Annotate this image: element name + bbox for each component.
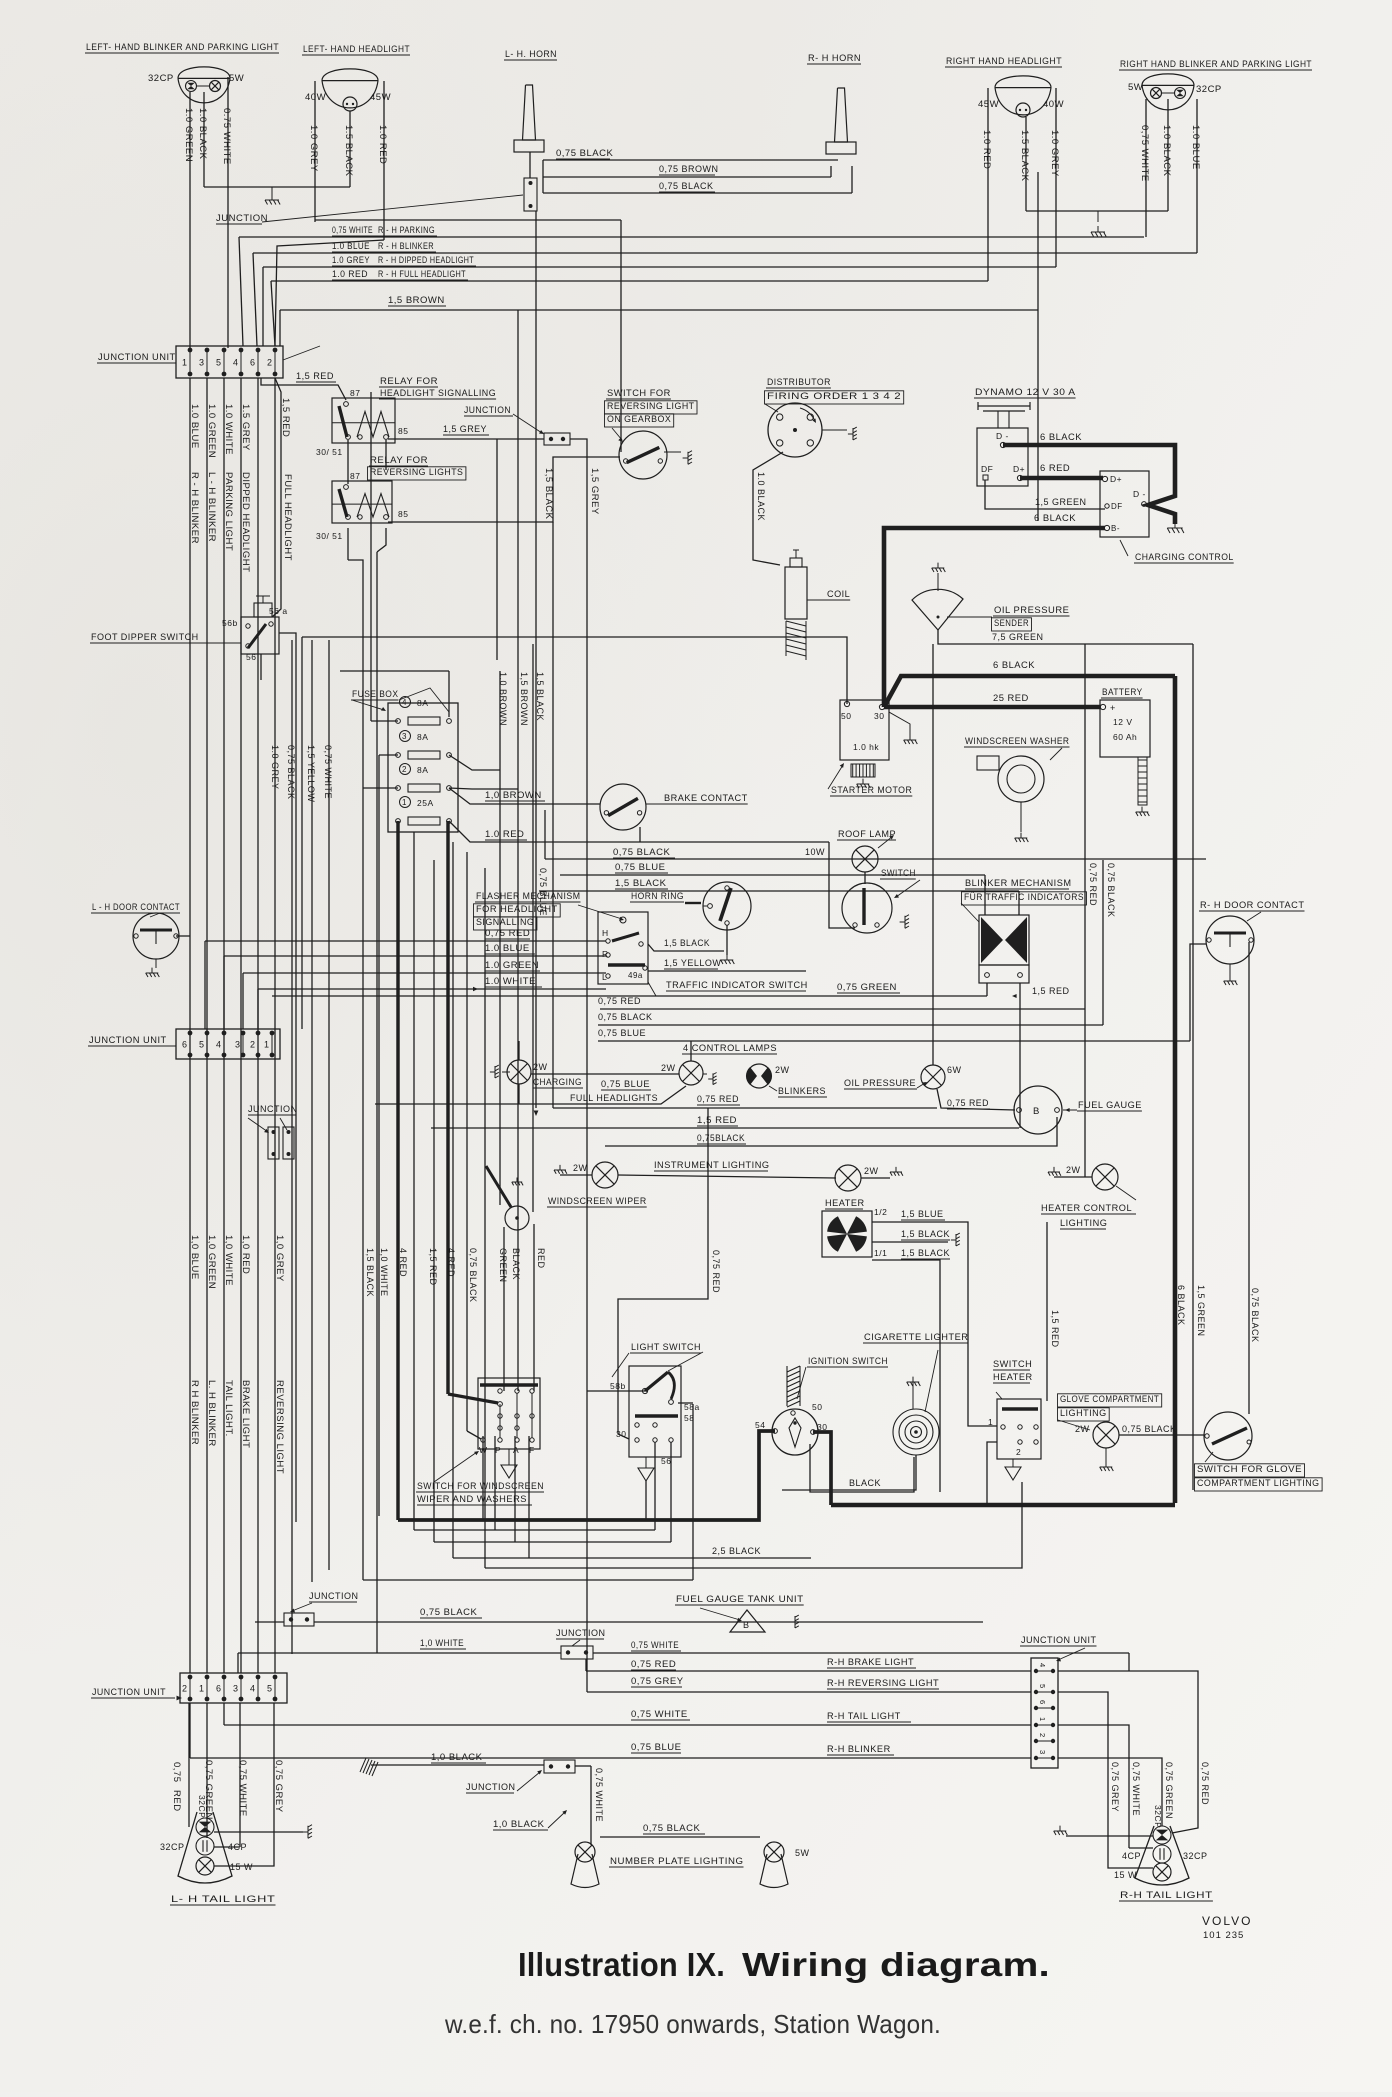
svg-text:32CP: 32CP [197,1795,207,1818]
svg-text:FLASHER MECHANISM: FLASHER MECHANISM [476,891,580,901]
svg-text:6 BLACK: 6 BLACK [1040,431,1082,442]
svg-text:1,0 WHITE: 1,0 WHITE [379,1248,389,1297]
svg-text:50: 50 [841,711,851,721]
svg-text:2W: 2W [533,1062,548,1072]
svg-text:0,75 BLUE: 0,75 BLUE [601,1079,650,1089]
svg-text:4: 4 [1038,1663,1047,1668]
svg-text:1.0 RED: 1.0 RED [377,125,388,164]
svg-text:FUSE BOX: FUSE BOX [352,689,398,699]
svg-text:NUMBER PLATE LIGHTING: NUMBER PLATE LIGHTING [610,1856,744,1866]
svg-text:1,0 BROWN: 1,0 BROWN [485,790,542,801]
svg-text:2W: 2W [1066,1165,1081,1175]
svg-text:1.0 BLACK: 1.0 BLACK [756,472,766,521]
svg-text:SWITCH: SWITCH [993,1359,1032,1369]
svg-text:REVERSING LIGHT: REVERSING LIGHT [274,1380,285,1474]
svg-text:6: 6 [216,1684,222,1694]
svg-text:STARTER MOTOR: STARTER MOTOR [831,785,912,795]
svg-text:1.0 RED: 1.0 RED [332,269,368,280]
svg-text:1,0 WHITE: 1,0 WHITE [420,1638,464,1649]
svg-text:0,75 BLACK: 0,75 BLACK [286,745,296,800]
svg-text:60 Ah: 60 Ah [1113,732,1137,742]
svg-text:Illustration IX.: Illustration IX. [518,1946,725,1983]
svg-text:HEATER: HEATER [825,1198,865,1208]
svg-text:0,75 GREEN: 0,75 GREEN [1164,1762,1174,1819]
svg-text:w.e.f. ch. no. 17950 onwards,: w.e.f. ch. no. 17950 onwards, Station Wa… [444,2009,941,2039]
svg-text:D+: D+ [1110,474,1122,484]
svg-text:RED: RED [536,1248,546,1269]
svg-text:1,5 GREY: 1,5 GREY [443,424,487,435]
svg-text:1,5 RED: 1,5 RED [428,1248,438,1286]
svg-text:87: 87 [350,471,360,481]
svg-text:OIL PRESSURE: OIL PRESSURE [994,605,1069,615]
svg-text:1,5 BLACK: 1,5 BLACK [664,938,710,948]
svg-text:FUEL GAUGE: FUEL GAUGE [1078,1100,1142,1110]
svg-text:1/1: 1/1 [874,1248,887,1258]
svg-text:LEFT- HAND HEADLIGHT: LEFT- HAND HEADLIGHT [303,44,410,55]
svg-text:32CP: 32CP [1196,84,1222,95]
svg-text:3: 3 [199,358,205,368]
svg-text:DIPPED HEADLIGHT: DIPPED HEADLIGHT [240,472,251,572]
svg-text:5: 5 [216,358,222,368]
svg-text:1,0 RED: 1,0 RED [240,1235,251,1274]
svg-text:1.0 GREY: 1.0 GREY [332,255,370,266]
svg-text:0,75 WHITE: 0,75 WHITE [594,1768,604,1822]
svg-text:CHARGING CONTROL: CHARGING CONTROL [1135,552,1234,562]
svg-text:Wiring diagram.: Wiring diagram. [742,1946,1050,1983]
svg-text:REVERSING LIGHTS: REVERSING LIGHTS [370,467,463,477]
svg-text:0,75 RED: 0,75 RED [711,1250,721,1293]
svg-text:1,0 BLACK: 1,0 BLACK [493,1819,545,1830]
svg-text:R-H TAIL LIGHT: R-H TAIL LIGHT [827,1711,901,1721]
svg-text:R- H HORN: R- H HORN [808,53,861,64]
svg-text:32CP: 32CP [160,1842,185,1852]
svg-text:R H BLINKER: R H BLINKER [189,1380,200,1445]
svg-text:H: H [602,928,609,938]
svg-text:GLOVE COMPARTMENT: GLOVE COMPARTMENT [1060,1394,1159,1404]
svg-text:5W: 5W [1128,82,1143,93]
svg-text:1/2: 1/2 [874,1207,887,1217]
svg-text:32CP: 32CP [1153,1805,1163,1828]
svg-text:JUNCTION UNIT: JUNCTION UNIT [92,1687,166,1697]
svg-text:1,5 BLACK: 1,5 BLACK [901,1248,950,1258]
svg-text:30: 30 [616,1429,626,1439]
svg-text:1,5 RED: 1,5 RED [1050,1310,1060,1348]
svg-text:B: B [1033,1106,1040,1117]
svg-text:PARKING LIGHT: PARKING LIGHT [223,472,234,551]
svg-text:0,75 WHITE: 0,75 WHITE [237,1760,248,1817]
svg-text:D -: D - [996,431,1009,441]
svg-text:REVERSING LIGHT: REVERSING LIGHT [607,401,695,411]
svg-text:RIGHT HAND BLINKER AND PARKING: RIGHT HAND BLINKER AND PARKING LIGHT [1120,59,1312,70]
svg-text:1,5 BLACK: 1,5 BLACK [615,878,667,889]
svg-text:SIGNALLING: SIGNALLING [476,917,534,927]
svg-text:4 CONTROL LAMPS: 4 CONTROL LAMPS [683,1043,777,1053]
svg-text:1.0 BLACK: 1.0 BLACK [1161,125,1172,177]
svg-text:1,0 BLUE: 1,0 BLUE [189,1235,200,1280]
svg-text:DISTRIBUTOR: DISTRIBUTOR [767,377,831,387]
svg-text:6 RED: 6 RED [1040,462,1070,473]
svg-text:1,5 BROWN: 1,5 BROWN [388,295,445,306]
svg-text:1,5 RED: 1,5 RED [697,1115,737,1125]
svg-text:L - H DOOR CONTACT: L - H DOOR CONTACT [92,902,180,912]
svg-text:12 V: 12 V [1113,717,1133,727]
svg-text:DYNAMO 12 V 30 A: DYNAMO 12 V 30 A [975,386,1076,397]
svg-text:101 235: 101 235 [1203,1930,1244,1941]
svg-text:3: 3 [233,1684,239,1694]
svg-text:1,5 RED: 1,5 RED [296,371,334,382]
svg-text:LEFT- HAND BLINKER AND PARKING: LEFT- HAND BLINKER AND PARKING LIGHT [86,42,279,53]
svg-text:HEADLIGHT SIGNALLING: HEADLIGHT SIGNALLING [380,388,496,398]
svg-text:1,5 YELLOW: 1,5 YELLOW [306,745,316,802]
svg-text:COIL: COIL [827,589,850,599]
svg-text:BLINKERS: BLINKERS [778,1086,826,1096]
svg-text:1,5 GREY: 1,5 GREY [589,468,600,515]
svg-text:INSTRUMENT LIGHTING: INSTRUMENT LIGHTING [654,1160,770,1170]
svg-text:56 a: 56 a [269,606,288,616]
svg-text:5W: 5W [795,1848,810,1858]
svg-text:IGNITION SWITCH: IGNITION SWITCH [808,1356,888,1366]
svg-text:3: 3 [1038,1750,1047,1755]
svg-text:GREEN: GREEN [498,1248,508,1283]
svg-text:SWITCH FOR: SWITCH FOR [607,388,671,398]
svg-text:8A: 8A [417,765,428,775]
svg-text:1,5 YELLOW: 1,5 YELLOW [664,958,721,968]
svg-text:SWITCH FOR WINDSCREEN: SWITCH FOR WINDSCREEN [417,1481,544,1491]
svg-text:5W: 5W [229,73,244,84]
svg-text:56: 56 [661,1456,671,1466]
svg-text:2: 2 [1038,1733,1047,1738]
svg-text:6 BLACK: 6 BLACK [1176,1285,1186,1326]
svg-text:10W: 10W [805,847,825,857]
svg-text:6: 6 [250,358,256,368]
svg-text:R - H PARKING: R - H PARKING [378,225,435,236]
svg-text:ON GEARBOX: ON GEARBOX [607,414,671,424]
svg-text:1,5 GREEN: 1,5 GREEN [1035,497,1087,507]
svg-text:0,75 WHITE: 0,75 WHITE [1139,125,1150,182]
svg-text:0,75BLACK: 0,75BLACK [697,1133,745,1143]
svg-text:5: 5 [267,1684,273,1694]
svg-text:1.0 RED: 1.0 RED [485,829,524,840]
svg-text:1,0 BLACK: 1,0 BLACK [431,1752,483,1763]
svg-text:RELAY FOR: RELAY FOR [370,455,428,465]
svg-text:85: 85 [398,426,408,436]
svg-text:1: 1 [1038,1717,1047,1722]
svg-text:R-H BRAKE LIGHT: R-H BRAKE LIGHT [827,1657,914,1667]
svg-text:BATTERY: BATTERY [1102,687,1143,697]
svg-text:1.0 GREEN: 1.0 GREEN [183,108,194,162]
svg-text:0,75 RED: 0,75 RED [697,1094,739,1104]
svg-text:RELAY FOR: RELAY FOR [380,376,438,386]
svg-text:4: 4 [250,1684,256,1694]
svg-text:SWITCH FOR GLOVE: SWITCH FOR GLOVE [1197,1464,1302,1474]
svg-text:L - H BLINKER: L - H BLINKER [206,472,217,542]
svg-text:8A: 8A [417,698,428,708]
svg-text:R-H TAIL LIGHT: R-H TAIL LIGHT [1120,1890,1213,1900]
svg-text:CIGARETTE LIGHTER: CIGARETTE LIGHTER [864,1332,968,1342]
svg-text:WINDSCREEN WIPER: WINDSCREEN WIPER [548,1196,647,1206]
svg-text:JUNCTION: JUNCTION [556,1628,606,1638]
svg-text:0,75: 0,75 [171,1762,182,1783]
svg-text:0,75 BLACK: 0,75 BLACK [468,1248,478,1303]
svg-text:2W: 2W [573,1163,588,1173]
svg-text:0,75 BLACK: 0,75 BLACK [659,181,714,191]
svg-text:1: 1 [988,1417,993,1427]
svg-text:1.0 GREEN: 1.0 GREEN [206,404,217,458]
svg-text:1.0 GREEN: 1.0 GREEN [485,960,539,971]
svg-text:6 BLACK: 6 BLACK [993,659,1035,670]
svg-text:JUNCTION: JUNCTION [309,1591,359,1601]
svg-text:1: 1 [199,1684,205,1694]
svg-text:1.0 GREY: 1.0 GREY [308,125,319,172]
svg-text:DF: DF [981,464,993,474]
svg-text:2: 2 [250,1040,256,1050]
svg-text:0,75 RED: 0,75 RED [1088,863,1098,906]
svg-text:4 RED: 4 RED [398,1248,408,1277]
svg-text:54: 54 [755,1420,765,1430]
svg-text:8A: 8A [417,732,428,742]
svg-text:0,75 BLACK: 0,75 BLACK [598,1012,653,1022]
svg-text:D+: D+ [1013,464,1025,474]
svg-text:+: + [1110,703,1116,713]
svg-text:BRAKE LIGHT: BRAKE LIGHT [240,1380,251,1448]
svg-text:TAIL LIGHT.: TAIL LIGHT. [223,1380,234,1437]
svg-text:45W: 45W [370,92,391,103]
svg-text:0,75 BLACK: 0,75 BLACK [1250,1288,1260,1343]
svg-text:BLACK: BLACK [849,1478,881,1488]
svg-text:3: 3 [402,732,407,741]
svg-text:1: 1 [264,1040,270,1050]
svg-text:0,75 BLACK: 0,75 BLACK [643,1823,700,1834]
svg-text:0,75 RED: 0,75 RED [1200,1762,1210,1805]
svg-text:15 W: 15 W [1114,1870,1137,1880]
svg-text:0,75 RED: 0,75 RED [598,996,641,1006]
svg-text:2,5 BLACK: 2,5 BLACK [712,1546,761,1556]
svg-text:0,75 BLACK: 0,75 BLACK [1122,1424,1177,1434]
svg-text:56b: 56b [222,618,238,628]
svg-text:SENDER: SENDER [994,618,1029,628]
svg-text:1.0 WHITE: 1.0 WHITE [485,976,536,987]
svg-text:4: 4 [402,698,407,707]
svg-text:0,75 WHITE: 0,75 WHITE [1131,1762,1141,1816]
svg-text:3: 3 [235,1040,241,1050]
svg-text:1,0 GREY: 1,0 GREY [274,1235,285,1282]
svg-text:1.5 BLACK: 1.5 BLACK [1019,130,1030,182]
svg-text:6 BLACK: 6 BLACK [1034,512,1076,523]
svg-text:0,75 BROWN: 0,75 BROWN [659,164,719,174]
svg-text:1.0 WHITE: 1.0 WHITE [223,404,234,455]
svg-text:1,5 BLACK: 1,5 BLACK [365,1248,375,1297]
svg-text:15 W: 15 W [230,1862,253,1872]
svg-text:HORN RING: HORN RING [631,891,684,901]
svg-text:0,75 BLACK: 0,75 BLACK [613,847,670,858]
svg-text:1.0 BLUE: 1.0 BLUE [332,241,370,252]
svg-text:0,75 WHITE: 0,75 WHITE [332,225,373,236]
svg-text:SWITCH: SWITCH [881,868,916,878]
svg-text:JUNCTION: JUNCTION [216,213,268,224]
svg-text:1.5 GREY: 1.5 GREY [240,404,251,451]
svg-text:LIGHTING: LIGHTING [1060,1218,1107,1228]
svg-text:B-: B- [1111,524,1120,533]
svg-text:50: 50 [812,1402,822,1412]
svg-text:FOOT DIPPER SWITCH: FOOT DIPPER SWITCH [91,632,199,643]
svg-text:0,75 RED: 0,75 RED [631,1659,676,1670]
svg-text:1,5 BROWN: 1,5 BROWN [519,672,529,726]
svg-text:1,0 WHITE: 1,0 WHITE [223,1235,234,1286]
svg-text:4CP: 4CP [1122,1851,1141,1861]
svg-text:0,75 GREEN: 0,75 GREEN [837,982,897,993]
svg-text:LIGHTING: LIGHTING [1060,1408,1107,1418]
svg-text:TRAFFIC INDICATOR SWITCH: TRAFFIC INDICATOR SWITCH [666,980,808,990]
svg-text:FÜR TRAFFIC INDICATORS: FÜR TRAFFIC INDICATORS [964,892,1084,902]
svg-text:4: 4 [216,1040,222,1050]
svg-text:2: 2 [182,1684,188,1694]
svg-text:JUNCTION UNIT: JUNCTION UNIT [98,352,176,363]
svg-text:R - H DIPPED HEADLIGHT: R - H DIPPED HEADLIGHT [378,255,474,266]
svg-text:DF: DF [1111,502,1123,511]
svg-text:25 RED: 25 RED [993,692,1029,703]
svg-text:B: B [743,1620,750,1630]
svg-text:0,75 BLUE: 0,75 BLUE [598,1028,646,1038]
svg-text:87: 87 [350,388,360,398]
svg-text:1.0 RED: 1.0 RED [981,130,992,169]
svg-text:1,5 GREEN: 1,5 GREEN [1196,1285,1206,1337]
svg-text:1.0 BLUE: 1.0 BLUE [189,404,200,449]
svg-text:P: P [495,1445,501,1455]
svg-text:D -: D - [1133,489,1146,499]
svg-text:1.0 BLUE: 1.0 BLUE [485,943,530,954]
svg-text:2: 2 [402,765,407,774]
svg-text:0.75 WHITE: 0.75 WHITE [221,108,232,165]
svg-text:6: 6 [1038,1700,1047,1705]
svg-text:32CP: 32CP [1183,1851,1208,1861]
svg-text:0,75 GREY: 0,75 GREY [1110,1762,1120,1812]
svg-text:R- H DOOR CONTACT: R- H DOOR CONTACT [1200,900,1304,910]
svg-text:0,75 BLACK: 0,75 BLACK [420,1607,477,1618]
svg-text:L. H BLINKER: L. H BLINKER [206,1380,217,1447]
svg-text:BRAKE CONTACT: BRAKE CONTACT [664,793,748,804]
svg-text:F: F [529,1445,535,1455]
svg-text:WINDSCREEN WASHER: WINDSCREEN WASHER [965,736,1069,746]
svg-text:30: 30 [874,711,884,721]
svg-text:5: 5 [199,1040,205,1050]
svg-text:85: 85 [398,509,408,519]
svg-text:0,75 BLACK: 0,75 BLACK [1106,863,1116,918]
svg-text:BLACK: BLACK [511,1248,521,1280]
svg-text:1.0 GREY: 1.0 GREY [270,745,280,790]
svg-text:HEATER: HEATER [993,1372,1033,1382]
svg-text:32CP: 32CP [148,73,174,84]
svg-text:JUNCTION: JUNCTION [466,1782,516,1792]
svg-text:1,0 GREEN: 1,0 GREEN [206,1235,217,1289]
svg-text:R - H BLINKER: R - H BLINKER [378,241,434,252]
svg-text:1,5 BLUE: 1,5 BLUE [901,1209,944,1219]
svg-text:4 RED: 4 RED [446,1248,456,1277]
svg-text:0,75 RED: 0,75 RED [947,1098,989,1108]
svg-text:FULL HEADLIGHTS: FULL HEADLIGHTS [570,1093,658,1103]
svg-text:BLINKER MECHANISM: BLINKER MECHANISM [965,878,1072,888]
svg-text:56: 56 [246,652,256,662]
svg-text:2W: 2W [661,1063,676,1073]
svg-text:25A: 25A [417,798,434,808]
svg-text:0,75 RED: 0,75 RED [485,928,530,939]
svg-text:1,5 RED: 1,5 RED [1032,986,1070,996]
svg-text:40W: 40W [1043,99,1064,110]
svg-text:JUNCTION: JUNCTION [464,405,511,416]
svg-text:1.0 BLUE: 1.0 BLUE [1190,125,1201,170]
svg-text:1.0 BLACK: 1.0 BLACK [197,108,208,160]
svg-text:6W: 6W [947,1065,962,1075]
svg-text:JUNCTION UNIT: JUNCTION UNIT [89,1035,167,1046]
svg-text:1,5 BLACK: 1,5 BLACK [535,672,545,721]
svg-text:ROOF LAMP: ROOF LAMP [838,829,896,839]
svg-text:FOR HEADLIGHT: FOR HEADLIGHT [476,904,558,914]
svg-text:49a: 49a [628,971,643,980]
svg-text:L- H TAIL LIGHT: L- H TAIL LIGHT [171,1894,275,1904]
svg-text:0,75 BLACK: 0,75 BLACK [556,148,613,159]
svg-text:30/ 51: 30/ 51 [316,447,343,457]
svg-text:COMPARTMENT LIGHTING: COMPARTMENT LIGHTING [1197,1478,1320,1488]
svg-text:5: 5 [1038,1684,1047,1689]
svg-text:0,75 WHITE: 0,75 WHITE [631,1709,688,1720]
svg-text:A: A [513,1445,519,1455]
svg-text:0,75 WHITE: 0,75 WHITE [631,1640,679,1651]
svg-text:1.0 hk: 1.0 hk [853,742,879,752]
svg-text:L- H. HORN: L- H. HORN [505,49,557,60]
svg-text:R-H REVERSING LIGHT: R-H REVERSING LIGHT [827,1678,939,1688]
svg-text:LIGHT SWITCH: LIGHT SWITCH [631,1342,701,1352]
svg-text:0,75 BLUE: 0,75 BLUE [631,1742,681,1753]
svg-text:0,75 BLUE: 0,75 BLUE [615,862,665,873]
svg-text:1: 1 [402,798,407,807]
svg-text:CHARGING: CHARGING [533,1077,582,1087]
svg-text:1.0 GREY: 1.0 GREY [1049,130,1060,177]
svg-text:2W: 2W [775,1065,790,1075]
svg-text:6: 6 [182,1040,188,1050]
svg-text:HEATER CONTROL: HEATER CONTROL [1041,1203,1132,1213]
svg-text:WIPER AND WASHERS: WIPER AND WASHERS [417,1494,527,1504]
svg-text:0,75 WHITE: 0,75 WHITE [323,745,333,799]
svg-text:1,5 BLACK: 1,5 BLACK [901,1229,950,1239]
svg-text:OIL PRESSURE: OIL PRESSURE [844,1078,916,1088]
svg-text:2: 2 [267,358,273,368]
svg-text:58b: 58b [610,1381,626,1391]
svg-text:4: 4 [233,358,239,368]
svg-text:1.0 BROWN: 1.0 BROWN [498,672,508,726]
svg-text:JUNCTION UNIT: JUNCTION UNIT [1021,1635,1096,1645]
svg-text:1: 1 [182,358,188,368]
svg-text:FUEL GAUGE TANK UNIT: FUEL GAUGE TANK UNIT [676,1594,804,1604]
svg-text:2: 2 [1016,1447,1021,1457]
svg-text:RED: RED [171,1790,182,1812]
svg-text:FIRING ORDER 1 3 4 2: FIRING ORDER 1 3 4 2 [767,391,901,401]
svg-text:FULL HEADLIGHT: FULL HEADLIGHT [282,474,293,561]
svg-text:30/ 51: 30/ 51 [316,531,343,541]
svg-text:2W: 2W [864,1166,879,1176]
svg-text:1.5 BLACK: 1.5 BLACK [343,125,354,177]
svg-text:1,5 BLACK: 1,5 BLACK [543,468,554,520]
svg-text:RIGHT HAND HEADLIGHT: RIGHT HAND HEADLIGHT [946,56,1062,67]
svg-text:R - H BLINKER: R - H BLINKER [189,472,200,544]
svg-text:JUNCTION: JUNCTION [248,1104,298,1114]
svg-text:0,75 GREY: 0,75 GREY [273,1760,284,1813]
svg-text:7,5 GREEN: 7,5 GREEN [992,632,1044,642]
svg-text:VOLVO: VOLVO [1202,1914,1252,1928]
svg-text:R - H FULL HEADLIGHT: R - H FULL HEADLIGHT [378,269,466,280]
svg-text:R-H BLINKER: R-H BLINKER [827,1744,891,1754]
svg-text:0,75 GREY: 0,75 GREY [631,1676,684,1687]
